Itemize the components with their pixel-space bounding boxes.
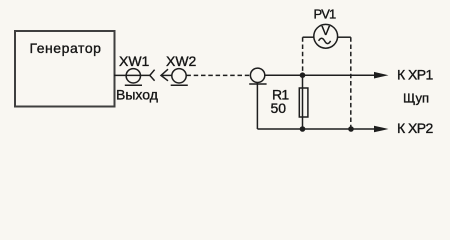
svg-text:К ХР2: К ХР2 — [397, 120, 434, 136]
svg-text:50: 50 — [271, 100, 287, 116]
svg-text:Щуп: Щуп — [403, 90, 429, 105]
svg-text:PV1: PV1 — [314, 6, 337, 21]
svg-text:V: V — [321, 23, 330, 38]
svg-text:К ХР1: К ХР1 — [397, 67, 434, 83]
svg-text:Генератор: Генератор — [30, 40, 102, 56]
svg-text:XW2: XW2 — [166, 53, 197, 69]
svg-text:Выход: Выход — [116, 87, 158, 103]
svg-text:XW1: XW1 — [119, 53, 150, 69]
